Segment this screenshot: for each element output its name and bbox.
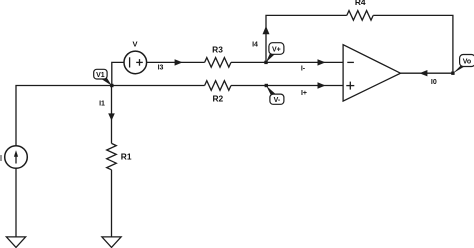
- wire: left column from row B down to current source: [16, 86, 112, 146]
- wire: riser from node V1 up to source row: [112, 62, 124, 85]
- svg-text:I4: I4: [252, 42, 258, 49]
- svg-text:I+: I+: [301, 90, 307, 97]
- svg-text:V: V: [132, 39, 137, 48]
- current arrow I+: [318, 82, 326, 88]
- wire: R3 to node V+ to op-amp minus input: [231, 61, 343, 63]
- node Vo junction dot: [451, 72, 454, 75]
- clipped gray label fragment at left edge: [0, 155, 2, 161]
- wire: op-amp output to node Vo: [401, 72, 453, 74]
- svg-text:I0: I0: [431, 79, 437, 86]
- wire: R1 to ground: [111, 170, 113, 237]
- wire: feedback riser from node V+ up to row T: [266, 15, 347, 62]
- node label V+: [266, 43, 284, 63]
- svg-text:R2: R2: [212, 94, 223, 104]
- node V1 junction dot: [110, 84, 113, 87]
- current arrow I0: [419, 70, 427, 76]
- wire: current source to ground: [15, 168, 17, 237]
- node V+ junction dot: [264, 61, 267, 64]
- resistor R4: [347, 11, 373, 21]
- wire: R2 to node V- to op-amp plus input: [231, 85, 343, 87]
- node V- junction dot: [265, 84, 268, 87]
- svg-text:R4: R4: [355, 0, 366, 7]
- svg-text:I1: I1: [99, 101, 105, 108]
- svg-text:V-: V-: [274, 97, 281, 104]
- svg-text:I-: I-: [301, 66, 306, 73]
- ground (left): [6, 237, 25, 248]
- resistor R1: [107, 143, 117, 169]
- current source I_s: [5, 146, 28, 169]
- wire: R4 to right column down to output row: [373, 15, 453, 73]
- svg-text:V+: V+: [272, 47, 281, 54]
- svg-text:I3: I3: [158, 65, 164, 72]
- node label V1: [94, 69, 112, 85]
- wire: source to R3: [147, 61, 205, 63]
- node label Vo: [453, 55, 474, 74]
- current arrow I1: [108, 113, 115, 120]
- voltage source V: [124, 51, 147, 74]
- resistor R2: [205, 81, 231, 91]
- current arrow I-: [318, 59, 326, 65]
- svg-text:Vo: Vo: [463, 59, 471, 66]
- svg-text:V1: V1: [96, 72, 105, 79]
- ground (right, under R1): [102, 237, 121, 248]
- svg-text:R1: R1: [121, 152, 132, 162]
- current arrow I3: [175, 59, 183, 65]
- current arrow I4: [263, 26, 270, 34]
- resistor R3: [205, 58, 231, 68]
- node label V-: [266, 86, 284, 104]
- svg-text:R3: R3: [212, 44, 223, 54]
- wire: node V1 down to R1: [111, 86, 113, 144]
- op-amp U1: [343, 45, 400, 101]
- wire: row B from node V1 to R2: [112, 85, 205, 87]
